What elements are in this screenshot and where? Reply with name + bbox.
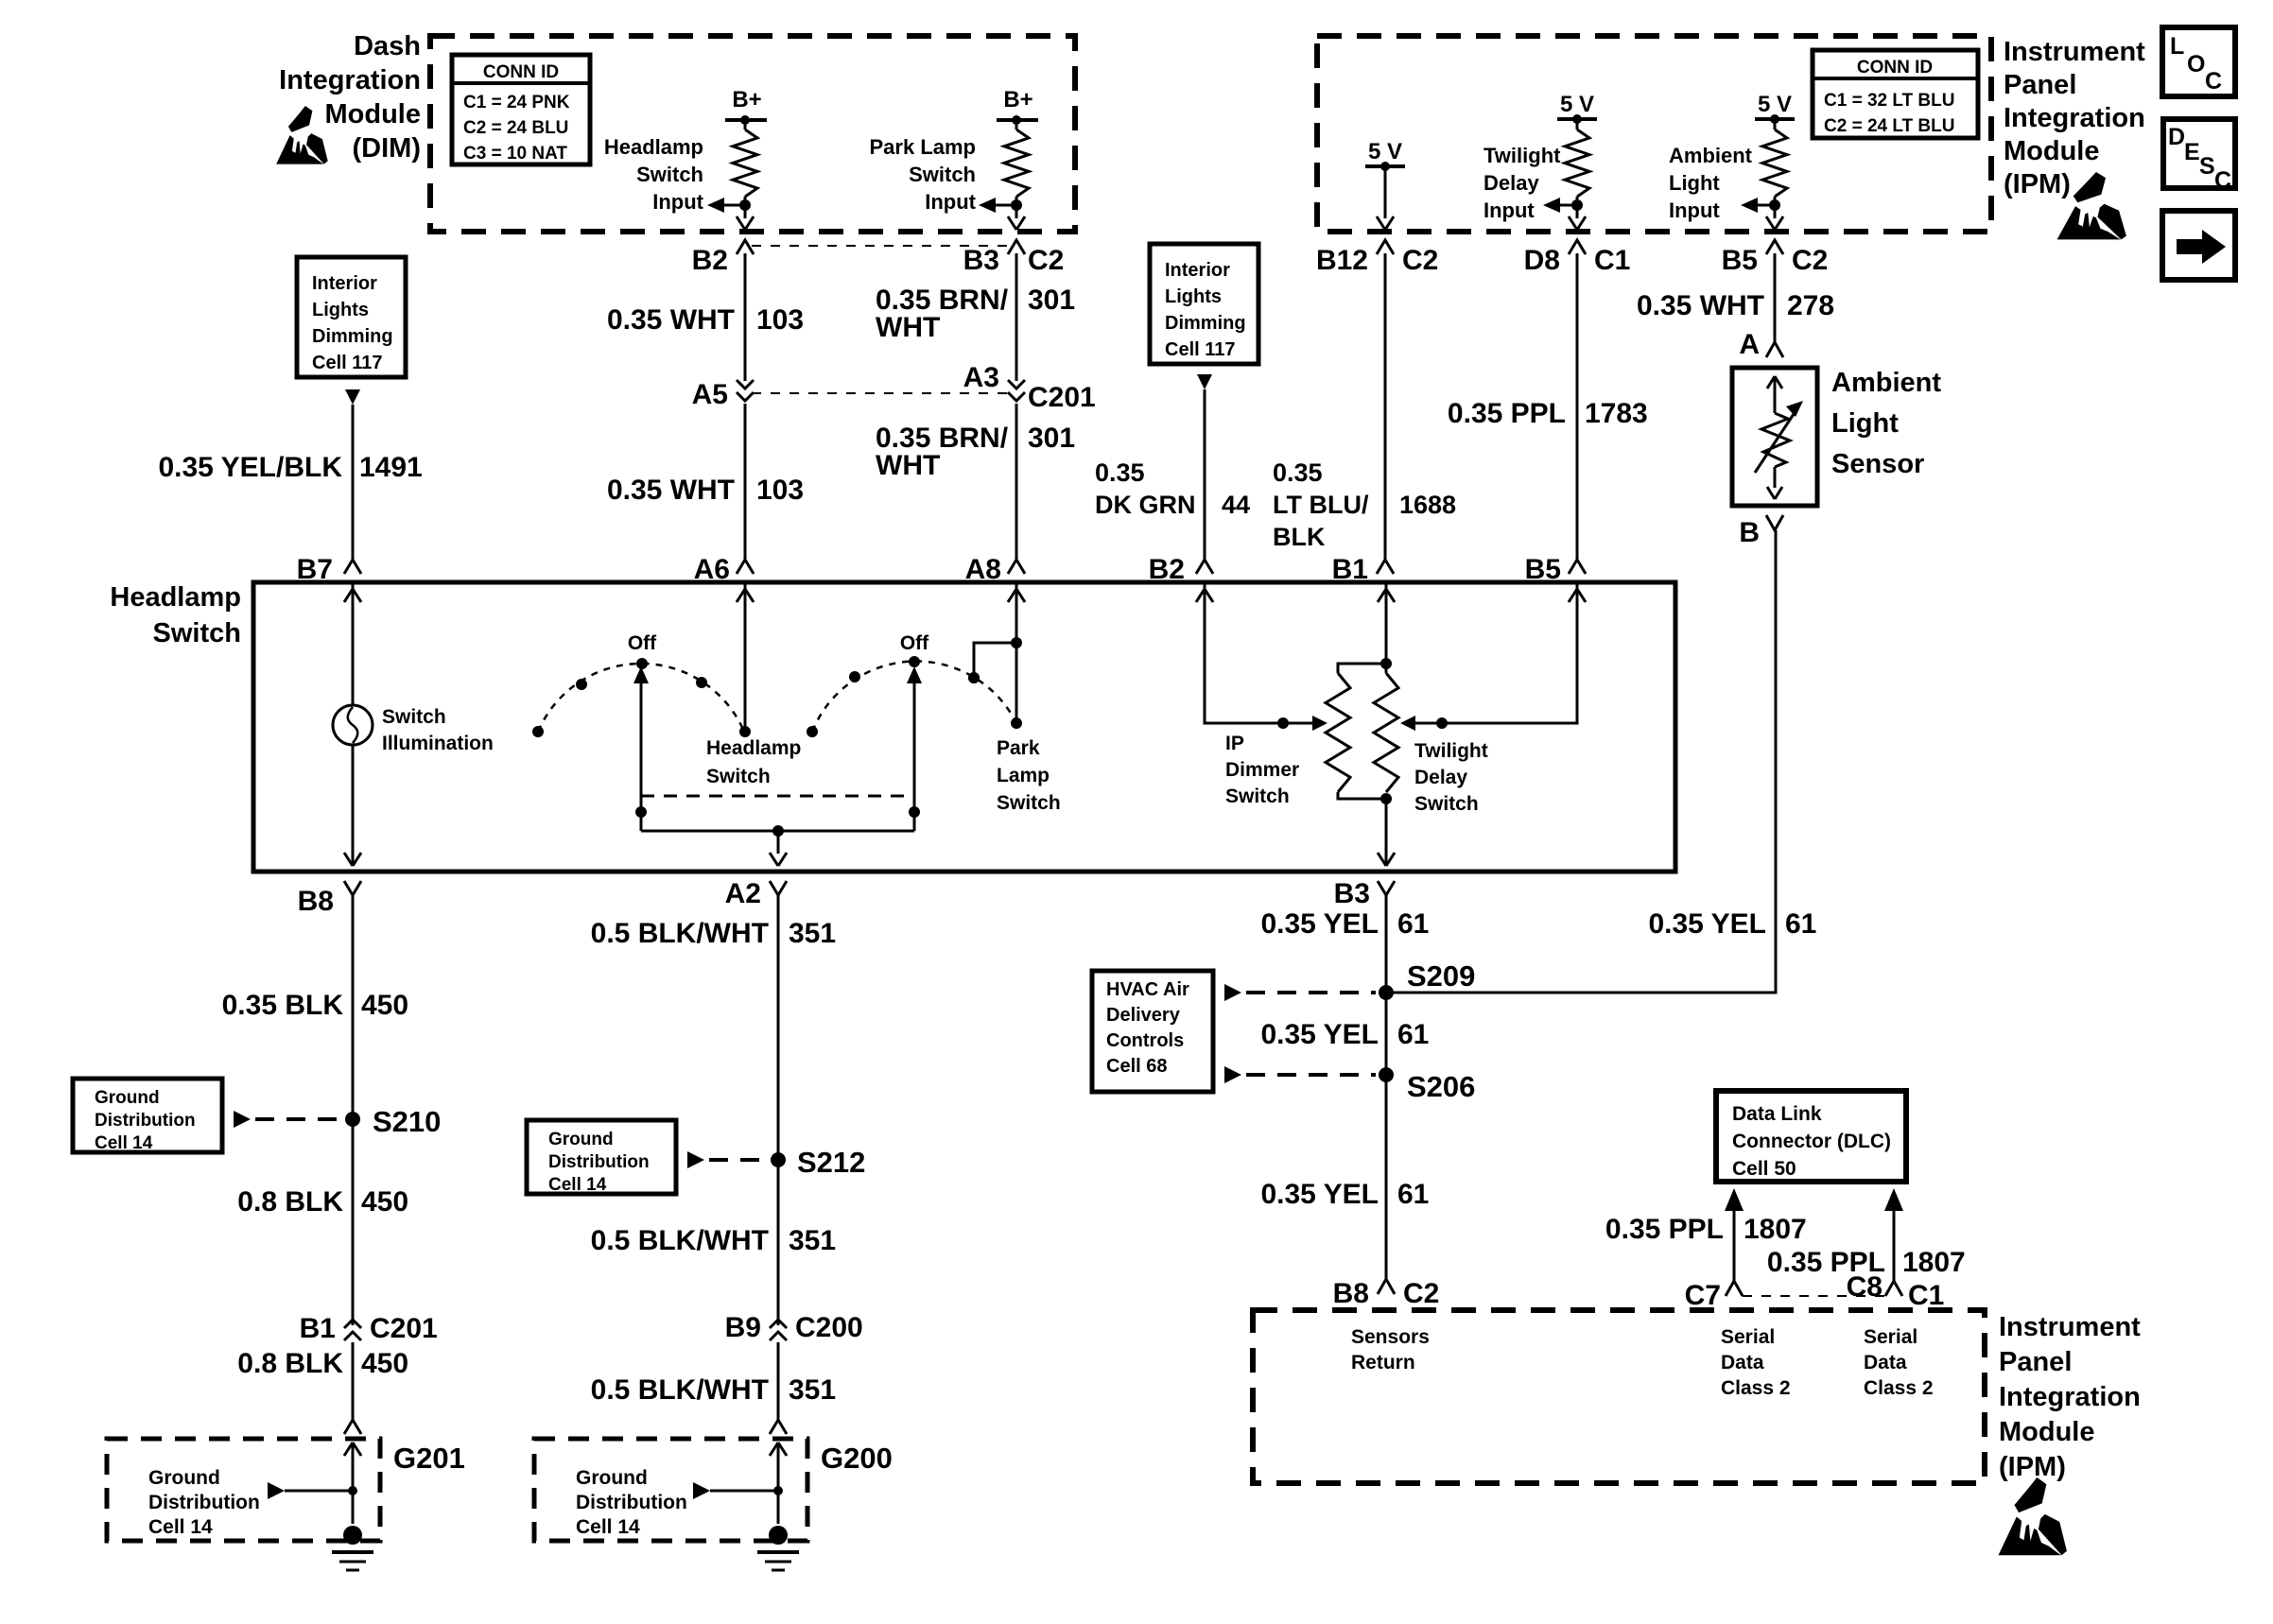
lamp: switch illumination bbox=[333, 705, 373, 745]
svg-text:301: 301 bbox=[1028, 285, 1075, 316]
pin A8 connector (headlamp switch) bbox=[1008, 560, 1025, 574]
switch lever: headlamp switch bbox=[640, 683, 643, 831]
svg-text:C2: C2 bbox=[1792, 245, 1828, 276]
wire: C7 to DLC (0.35 PPL 1807) bbox=[1733, 1211, 1736, 1281]
svg-text:B3: B3 bbox=[1334, 878, 1370, 909]
arrow+dash: ground distribution ref to S212 bbox=[687, 1151, 704, 1168]
svg-text:Sensor: Sensor bbox=[1831, 449, 1924, 479]
svg-text:0.35 YEL: 0.35 YEL bbox=[1648, 908, 1766, 940]
wire: potentiometer to B3 bbox=[1385, 799, 1388, 866]
svg-text:Input: Input bbox=[1484, 199, 1535, 222]
node: twilight delay input junction bbox=[1571, 199, 1583, 211]
wire: sensor B to S209 (0.35 YEL 61) bbox=[1386, 530, 1776, 993]
resistor R: park lamp switch input pull-up bbox=[1004, 130, 1029, 197]
svg-text:O: O bbox=[2187, 51, 2205, 78]
svg-text:Headlamp: Headlamp bbox=[706, 737, 801, 759]
svg-text:Interior: Interior bbox=[312, 273, 377, 294]
svg-text:103: 103 bbox=[756, 304, 804, 336]
svg-text:Data: Data bbox=[1721, 1352, 1764, 1373]
svg-text:278: 278 bbox=[1787, 290, 1834, 321]
svg-text:Integration: Integration bbox=[279, 65, 421, 95]
CONN ID table (IPM) bbox=[1813, 50, 1978, 138]
pin B1 connector (headlamp switch) bbox=[1377, 560, 1394, 574]
bracket: potentiometer bottom bbox=[1338, 792, 1386, 799]
svg-text:B: B bbox=[1739, 517, 1760, 548]
wire: B8 to S210 (0.35 BLK 450) bbox=[352, 895, 355, 1325]
svg-text:C2 = 24 BLU: C2 = 24 BLU bbox=[463, 118, 568, 138]
arrow+dash: HVAC ref to S209 bbox=[1224, 984, 1241, 1001]
svg-text:5 V: 5 V bbox=[1560, 92, 1594, 117]
linkage: lever tie (dashed) bbox=[641, 795, 914, 798]
svg-text:Serial: Serial bbox=[1864, 1326, 1917, 1348]
svg-text:G201: G201 bbox=[393, 1442, 465, 1475]
svg-text:S209: S209 bbox=[1407, 959, 1475, 993]
arrow: A6 up (inside box) bbox=[737, 589, 754, 602]
splice S206 bbox=[1379, 1067, 1394, 1082]
svg-text:351: 351 bbox=[789, 918, 836, 949]
svg-text:Switch: Switch bbox=[1225, 786, 1290, 807]
pin B7 connector (headlamp switch) bbox=[344, 560, 361, 574]
wire: C8 to DLC (0.35 PPL 1807) bbox=[1893, 1211, 1896, 1281]
resistor R: ambient light input pull-up bbox=[1762, 130, 1787, 197]
svg-text:0.35 WHT: 0.35 WHT bbox=[607, 304, 735, 336]
svg-text:CONN ID: CONN ID bbox=[1857, 58, 1933, 78]
arrow: headlamp switch input (left) bbox=[724, 204, 745, 207]
svg-text:61: 61 bbox=[1397, 1179, 1429, 1210]
svg-text:1491: 1491 bbox=[359, 452, 423, 483]
svg-text:Off: Off bbox=[900, 632, 929, 654]
svg-text:Data Link: Data Link bbox=[1732, 1103, 1822, 1125]
svg-text:D: D bbox=[2168, 124, 2185, 150]
wire: dimming to B2 (0.35 DK GRN 44) bbox=[1204, 389, 1206, 560]
arrow: interior lights dimming output (down triangle) bbox=[345, 389, 360, 405]
arrow: B5 up (inside box) bbox=[1569, 589, 1586, 602]
svg-text:1688: 1688 bbox=[1399, 491, 1456, 519]
resistor R: twilight delay element bbox=[1374, 673, 1398, 792]
svg-text:0.35 YEL: 0.35 YEL bbox=[1260, 908, 1379, 940]
pin D8/C1 connector (IPM) bbox=[1569, 240, 1586, 254]
svg-text:Ambient: Ambient bbox=[1669, 144, 1753, 167]
svg-text:B+: B+ bbox=[732, 87, 761, 112]
svg-text:C: C bbox=[2214, 167, 2231, 194]
svg-text:Switch: Switch bbox=[382, 706, 446, 728]
wire: B3 to S209 (0.35 YEL 61) bbox=[1385, 895, 1388, 1279]
arrow+dash: HVAC ref to S206 bbox=[1224, 1066, 1241, 1083]
svg-text:A: A bbox=[1739, 329, 1760, 360]
svg-text:Cell 14: Cell 14 bbox=[95, 1133, 153, 1153]
svg-text:Cell 14: Cell 14 bbox=[576, 1516, 640, 1538]
connector A3 (C201) bbox=[1008, 380, 1025, 389]
contact dots: headlamp switch arc bbox=[532, 726, 544, 737]
svg-text:S: S bbox=[2199, 153, 2215, 180]
svg-text:Integration: Integration bbox=[1999, 1382, 2141, 1412]
svg-text:5 V: 5 V bbox=[1758, 92, 1792, 117]
wire: G200 internal bbox=[777, 1443, 780, 1524]
svg-text:C1 = 32 LT BLU: C1 = 32 LT BLU bbox=[1824, 91, 1954, 111]
ground box: G201 Ground Distribution Cell 14 bbox=[107, 1439, 380, 1541]
svg-text:0.35 YEL/BLK: 0.35 YEL/BLK bbox=[158, 452, 342, 483]
wire: B2 feed (IP dimmer) bbox=[1205, 582, 1324, 723]
svg-text:Panel: Panel bbox=[2004, 70, 2076, 100]
svg-text:0.35: 0.35 bbox=[1273, 458, 1323, 487]
svg-text:0.8 BLK: 0.8 BLK bbox=[237, 1348, 343, 1379]
svg-text:C: C bbox=[2205, 68, 2222, 95]
svg-text:Dimmer: Dimmer bbox=[1225, 759, 1299, 781]
svg-text:61: 61 bbox=[1397, 908, 1429, 940]
wire: A6 to headlamp switch common bbox=[744, 582, 747, 732]
svg-text:E: E bbox=[2184, 139, 2200, 165]
switch arc: headlamp switch positions bbox=[538, 664, 744, 732]
component box: Ambient Light Sensor bbox=[1732, 368, 1817, 506]
svg-text:B5: B5 bbox=[1722, 245, 1758, 276]
svg-text:1807: 1807 bbox=[1902, 1247, 1966, 1278]
svg-text:0.35 PPL: 0.35 PPL bbox=[1448, 398, 1566, 429]
box: Interior Lights Dimming Cell 117 (left) bbox=[297, 257, 406, 377]
wire: resistor to DIM output bbox=[744, 197, 747, 218]
svg-text:L: L bbox=[2170, 33, 2184, 60]
splice S212 bbox=[771, 1152, 786, 1167]
connector C201 in-line dashed link bbox=[752, 392, 1010, 394]
pin A6 connector (headlamp switch) bbox=[737, 560, 754, 574]
svg-text:C201: C201 bbox=[1028, 382, 1096, 413]
svg-text:C2: C2 bbox=[1402, 245, 1438, 276]
svg-text:351: 351 bbox=[789, 1225, 836, 1256]
svg-text:IP: IP bbox=[1225, 733, 1244, 754]
svg-text:(DIM): (DIM) bbox=[353, 133, 421, 164]
svg-text:1807: 1807 bbox=[1744, 1214, 1807, 1245]
svg-text:Off: Off bbox=[628, 632, 657, 654]
svg-text:B8: B8 bbox=[1333, 1278, 1369, 1309]
connector A5 (C201) bbox=[737, 380, 754, 389]
arrow: into G200 bbox=[770, 1443, 787, 1456]
svg-text:450: 450 bbox=[361, 1186, 408, 1218]
svg-text:Module: Module bbox=[325, 99, 422, 130]
svg-text:Lights: Lights bbox=[1165, 286, 1222, 307]
CONN ID table (DIM) bbox=[452, 55, 590, 164]
arrow+dash: ground distribution ref to S210 bbox=[234, 1111, 251, 1128]
svg-text:Switch: Switch bbox=[1414, 793, 1479, 815]
svg-text:Ground: Ground bbox=[148, 1467, 220, 1489]
arrow: interior lights dimming output 2 (down triangle) bbox=[1197, 374, 1212, 389]
svg-text:Instrument: Instrument bbox=[1999, 1312, 2141, 1342]
svg-text:C2: C2 bbox=[1028, 245, 1064, 276]
svg-text:CONN ID: CONN ID bbox=[483, 62, 559, 82]
pin B8 connector bbox=[344, 881, 361, 895]
svg-text:Controls: Controls bbox=[1106, 1030, 1184, 1051]
svg-text:C3 = 10 NAT: C3 = 10 NAT bbox=[463, 144, 567, 164]
svg-text:Distribution: Distribution bbox=[148, 1492, 260, 1513]
svg-text:0.35: 0.35 bbox=[1095, 458, 1145, 487]
svg-text:A5: A5 bbox=[692, 379, 728, 410]
arrow: twilight delay input (left) bbox=[1560, 204, 1577, 207]
svg-text:LT BLU/: LT BLU/ bbox=[1273, 491, 1369, 519]
svg-text:0.35 BLK: 0.35 BLK bbox=[222, 990, 344, 1021]
box: forward arrow legend bbox=[2162, 211, 2235, 280]
component box: Headlamp Switch bbox=[253, 582, 1675, 872]
pin C1 connector bbox=[1885, 1281, 1902, 1296]
svg-text:Lights: Lights bbox=[312, 300, 369, 320]
switch arc: park lamp switch positions bbox=[812, 662, 1016, 732]
arrow: A2 down (inside box) bbox=[770, 853, 787, 866]
svg-text:(IPM): (IPM) bbox=[1999, 1452, 2066, 1482]
box: Ground Distribution Cell 14 (S210) bbox=[73, 1079, 222, 1152]
arrow: B8 down (inside box) bbox=[344, 853, 361, 866]
svg-text:B1: B1 bbox=[300, 1313, 336, 1344]
arrow: IPM B12 output down bbox=[1377, 216, 1394, 230]
pin A2 connector bbox=[770, 881, 787, 895]
svg-text:Cell 14: Cell 14 bbox=[148, 1516, 213, 1538]
module box: Instrument Panel Integration Module (IPM) bbox=[1317, 36, 1991, 232]
svg-text:C1: C1 bbox=[1594, 245, 1630, 276]
svg-text:Twilight: Twilight bbox=[1484, 144, 1561, 167]
svg-text:5 V: 5 V bbox=[1368, 139, 1402, 164]
node: headlamp switch input junction bbox=[739, 199, 751, 211]
svg-text:S212: S212 bbox=[797, 1146, 865, 1179]
svg-text:61: 61 bbox=[1785, 908, 1816, 940]
wire: 5V to B12 output bbox=[1384, 166, 1387, 218]
svg-text:Switch: Switch bbox=[706, 766, 771, 787]
node: linkage center tap bbox=[772, 825, 784, 837]
svg-text:Data: Data bbox=[1864, 1352, 1907, 1373]
node: ambient light input junction bbox=[1769, 199, 1780, 211]
svg-text:Cell 50: Cell 50 bbox=[1732, 1158, 1796, 1180]
svg-text:0.35 YEL: 0.35 YEL bbox=[1260, 1019, 1379, 1050]
wire: C201 to G201 (0.8 BLK 450) bbox=[352, 1342, 355, 1420]
wire: B+ bar to resistor bbox=[744, 120, 747, 130]
svg-text:Distribution: Distribution bbox=[95, 1111, 196, 1131]
svg-text:G200: G200 bbox=[821, 1442, 893, 1475]
resistor R: headlamp switch input pull-up bbox=[733, 130, 757, 197]
svg-text:Return: Return bbox=[1351, 1352, 1415, 1373]
svg-text:Input: Input bbox=[1669, 199, 1720, 222]
svg-text:Ambient: Ambient bbox=[1831, 368, 1941, 398]
node: G201 junction bbox=[348, 1486, 357, 1495]
connector B9/C200 in-line bbox=[770, 1320, 787, 1328]
svg-text:A2: A2 bbox=[725, 878, 761, 909]
svg-text:B2: B2 bbox=[692, 245, 728, 276]
svg-text:Instrument: Instrument bbox=[2004, 37, 2145, 67]
svg-text:44: 44 bbox=[1222, 491, 1250, 519]
wire: C200 to G200 (0.5 BLK/WHT 351) bbox=[777, 1342, 780, 1420]
wire: dimming signal to B7 (0.35 YEL/BLK 1491) bbox=[352, 405, 355, 560]
svg-text:Module: Module bbox=[1999, 1417, 2095, 1447]
svg-text:Dimming: Dimming bbox=[312, 326, 393, 347]
svg-text:61: 61 bbox=[1397, 1019, 1429, 1050]
wire: 5V bar to resistor (twilight) bbox=[1576, 119, 1579, 130]
box: DESC legend bbox=[2163, 119, 2235, 188]
svg-text:B12: B12 bbox=[1316, 245, 1368, 276]
connector B1/C201 in-line bbox=[344, 1320, 361, 1328]
resistor R: twilight delay input pull-up bbox=[1565, 130, 1589, 197]
box: Interior Lights Dimming Cell 117 (middle) bbox=[1150, 244, 1258, 364]
wire: A5 to A6 (0.35 WHT 103) bbox=[744, 404, 747, 560]
svg-text:B+: B+ bbox=[1003, 87, 1032, 112]
svg-text:0.35 YEL: 0.35 YEL bbox=[1260, 1179, 1379, 1210]
svg-text:C2: C2 bbox=[1403, 1278, 1439, 1309]
wire: ambient resistor to B5 bbox=[1774, 197, 1777, 218]
module box: Instrument Panel Integration Module (IPM) bottom bbox=[1253, 1310, 1985, 1483]
svg-text:Switch: Switch bbox=[909, 163, 976, 186]
box: LOC legend bbox=[2162, 27, 2235, 96]
svg-text:Class 2: Class 2 bbox=[1721, 1377, 1791, 1399]
svg-text:301: 301 bbox=[1028, 423, 1075, 454]
svg-text:B9: B9 bbox=[725, 1312, 761, 1343]
arrow: A8 up (inside box) bbox=[1008, 589, 1025, 602]
arrow: park lamp switch input (left) bbox=[996, 204, 1016, 207]
svg-text:0.35 WHT: 0.35 WHT bbox=[1637, 290, 1764, 321]
pin B5 connector (headlamp switch) bbox=[1569, 560, 1586, 574]
arrow: DIM B3 output down bbox=[1008, 216, 1025, 230]
svg-text:0.5 BLK/WHT: 0.5 BLK/WHT bbox=[591, 1225, 769, 1256]
wire: B+ bar to resistor (park) bbox=[1015, 120, 1018, 130]
wire: D8 to B5 (0.35 PPL 1783) bbox=[1576, 253, 1579, 560]
pin A connector (ambient light sensor) bbox=[1766, 342, 1783, 357]
svg-text:Sensors: Sensors bbox=[1351, 1326, 1430, 1348]
node: headlamp lever linkage bbox=[635, 806, 647, 818]
wire: B1 feed upper bbox=[1385, 582, 1388, 673]
pin B connector (ambient light sensor) bbox=[1766, 515, 1783, 530]
svg-text:S206: S206 bbox=[1407, 1070, 1475, 1103]
pin B3 connector bbox=[1378, 881, 1395, 895]
svg-text:Light: Light bbox=[1669, 171, 1720, 195]
svg-text:Twilight: Twilight bbox=[1414, 740, 1488, 762]
svg-text:Class 2: Class 2 bbox=[1864, 1377, 1934, 1399]
node: park lamp on-contact bbox=[968, 672, 980, 683]
svg-text:(IPM): (IPM) bbox=[2004, 169, 2071, 199]
pin B8/C2 connector (IPM bottom) bbox=[1378, 1279, 1395, 1294]
svg-text:Cell 117: Cell 117 bbox=[1165, 339, 1236, 360]
svg-text:C200: C200 bbox=[795, 1312, 863, 1343]
wire: B7 through switch illumination bbox=[352, 582, 355, 866]
pin B5/C2 connector (IPM) bbox=[1766, 240, 1783, 254]
arrow: B3 down (inside box) bbox=[1378, 853, 1395, 866]
svg-text:C1: C1 bbox=[1908, 1280, 1944, 1311]
module box: Dash Integration Module (DIM) bbox=[430, 36, 1075, 232]
svg-text:B3: B3 bbox=[963, 245, 999, 276]
photoresistor symbol (ambient light sensor) bbox=[1767, 376, 1782, 389]
svg-text:Ground: Ground bbox=[576, 1467, 648, 1489]
svg-text:Input: Input bbox=[652, 190, 703, 214]
svg-text:Ground: Ground bbox=[548, 1130, 614, 1149]
wire: IPM B5 to sensor A (0.35 WHT 278) bbox=[1774, 253, 1777, 342]
wire: A8 to park lamp switch bbox=[1015, 582, 1018, 723]
wire: B12 to B1 (0.35 LT BLU/BLK 1688) bbox=[1384, 253, 1387, 560]
linkage: lever common bar bbox=[641, 830, 914, 833]
svg-text:Light: Light bbox=[1831, 408, 1899, 439]
svg-text:Delay: Delay bbox=[1484, 171, 1539, 195]
pin C7 connector bbox=[1726, 1281, 1743, 1296]
arrow+wire: ground distribution tap (G200) bbox=[693, 1482, 710, 1499]
svg-text:0.35 PPL: 0.35 PPL bbox=[1767, 1247, 1885, 1278]
arrow: IPM D8 output down bbox=[1569, 216, 1586, 230]
svg-text:450: 450 bbox=[361, 990, 408, 1021]
svg-text:Switch: Switch bbox=[153, 618, 241, 648]
svg-text:Dimming: Dimming bbox=[1165, 313, 1246, 334]
svg-text:HVAC Air: HVAC Air bbox=[1106, 979, 1189, 1000]
arrow: DIM B2 output down bbox=[737, 216, 754, 230]
connector C2 in-line dashed link (B2-B3 row) bbox=[752, 245, 1010, 247]
pin B3/C2 connector (DIM) bbox=[1008, 240, 1025, 254]
arrow: IP dimmer wiper (right) bbox=[1312, 716, 1327, 731]
pin B2 connector (headlamp switch) bbox=[1196, 560, 1213, 574]
svg-text:Headlamp: Headlamp bbox=[604, 135, 703, 159]
svg-text:C7: C7 bbox=[1685, 1280, 1721, 1311]
resistor R: IP dimmer element bbox=[1326, 673, 1350, 792]
connector at G200 bbox=[770, 1420, 787, 1434]
svg-text:Ground: Ground bbox=[95, 1088, 160, 1108]
svg-text:351: 351 bbox=[789, 1374, 836, 1406]
ESD symbol (IPM bottom) bbox=[1999, 1477, 2067, 1555]
svg-text:Headlamp: Headlamp bbox=[110, 582, 241, 613]
node: A8 tap junction bbox=[1011, 637, 1022, 648]
node: park lamp lever linkage bbox=[909, 806, 920, 818]
svg-text:WHT: WHT bbox=[876, 312, 940, 343]
ESD symbol (DIM) bbox=[276, 106, 328, 164]
svg-text:0.5 BLK/WHT: 0.5 BLK/WHT bbox=[591, 1374, 769, 1406]
svg-text:Serial: Serial bbox=[1721, 1326, 1775, 1348]
svg-text:Illumination: Illumination bbox=[382, 733, 494, 754]
svg-text:A3: A3 bbox=[963, 362, 999, 393]
svg-text:C2 = 24 LT BLU: C2 = 24 LT BLU bbox=[1824, 116, 1954, 136]
svg-text:Lamp: Lamp bbox=[997, 765, 1050, 786]
splice S209 bbox=[1379, 985, 1394, 1000]
ground symbol G201 bbox=[343, 1526, 362, 1545]
box: Ground Distribution Cell 14 (S212) bbox=[527, 1120, 676, 1194]
svg-text:Park Lamp: Park Lamp bbox=[870, 135, 977, 159]
box: HVAC Air Delivery Controls Cell 68 bbox=[1092, 971, 1213, 1092]
wire: resistor to DIM output (park) bbox=[1015, 197, 1018, 218]
bracket: potentiometer top bbox=[1338, 664, 1386, 673]
splice S210 bbox=[345, 1112, 360, 1127]
svg-text:0.8 BLK: 0.8 BLK bbox=[237, 1186, 343, 1218]
svg-text:WHT: WHT bbox=[876, 450, 940, 481]
svg-text:450: 450 bbox=[361, 1348, 408, 1379]
wire: B2 to A5 (0.35 WHT 103) bbox=[744, 253, 747, 381]
svg-text:Switch: Switch bbox=[636, 163, 703, 186]
svg-text:0.35 PPL: 0.35 PPL bbox=[1605, 1214, 1724, 1245]
svg-text:0.35 WHT: 0.35 WHT bbox=[607, 475, 735, 506]
svg-text:Cell 14: Cell 14 bbox=[548, 1175, 607, 1195]
svg-text:B8: B8 bbox=[298, 886, 334, 917]
pin B2 connector (DIM) bbox=[737, 240, 754, 254]
svg-text:Module: Module bbox=[2004, 136, 2100, 166]
svg-text:C1 = 24 PNK: C1 = 24 PNK bbox=[463, 93, 570, 112]
svg-text:0.5 BLK/WHT: 0.5 BLK/WHT bbox=[591, 918, 769, 949]
ground box: G200 Ground Distribution Cell 14 bbox=[534, 1439, 807, 1541]
svg-text:DK GRN: DK GRN bbox=[1095, 491, 1196, 519]
svg-text:Connector (DLC): Connector (DLC) bbox=[1732, 1131, 1891, 1152]
wire: linkage to A2 output bbox=[777, 831, 780, 854]
arrow: IPM B5 output down bbox=[1766, 216, 1783, 230]
svg-text:Cell 117: Cell 117 bbox=[312, 353, 383, 373]
connector link C7-C1 (dashed) bbox=[1743, 1295, 1886, 1297]
svg-text:Distribution: Distribution bbox=[548, 1152, 650, 1172]
node: G200 junction bbox=[773, 1486, 783, 1495]
arrow: B2 up (inside box) bbox=[1196, 589, 1213, 602]
wire: G201 internal bbox=[352, 1443, 355, 1524]
wire: twilight resistor to D8 bbox=[1576, 197, 1579, 218]
ESD symbol (IPM top) bbox=[2057, 172, 2126, 239]
svg-text:Delay: Delay bbox=[1414, 767, 1467, 788]
svg-text:Panel: Panel bbox=[1999, 1347, 2072, 1377]
arrow: twilight wiper (left) bbox=[1400, 716, 1415, 731]
contact dots: park lamp switch arc bbox=[807, 726, 818, 737]
wire: B5 feed (twilight delay) bbox=[1415, 582, 1577, 723]
node: potentiometer top junction bbox=[1380, 658, 1392, 669]
arrow: B7 up (inside box) bbox=[344, 589, 361, 602]
svg-text:Interior: Interior bbox=[1165, 260, 1230, 281]
svg-text:103: 103 bbox=[756, 475, 804, 506]
